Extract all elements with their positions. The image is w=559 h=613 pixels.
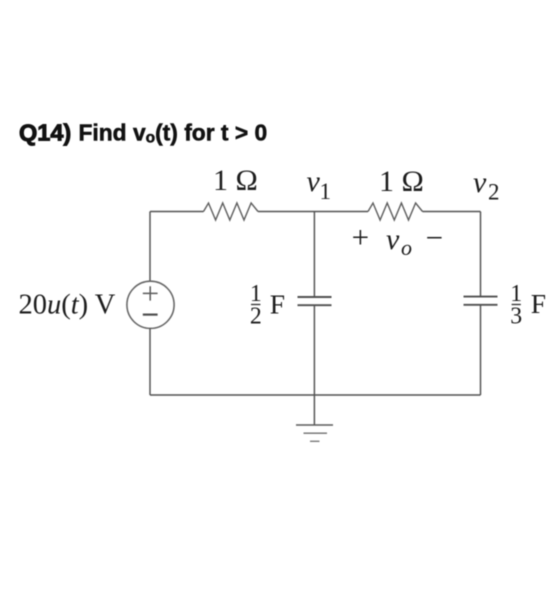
- wire between resistors: [258, 211, 368, 213]
- ground bar 2: [304, 432, 328, 434]
- capacitor C1 1/2 F plates: [298, 297, 332, 305]
- svg-text:−: −: [426, 220, 443, 255]
- svg-text:+: +: [352, 220, 369, 255]
- svg-text:Q14): Q14): [19, 120, 71, 146]
- svg-text:3: 3: [510, 304, 522, 330]
- svg-text:F: F: [270, 289, 285, 320]
- wire middle vertical top: [313, 212, 315, 298]
- svg-text:o: o: [401, 235, 412, 260]
- wire right vertical bottom: [480, 305, 482, 395]
- voltage source plus: [143, 286, 158, 300]
- wire top-left segment: [150, 211, 204, 213]
- ground bar 1: [296, 424, 333, 426]
- wire left vertical top: [149, 212, 151, 282]
- svg-text:v: v: [307, 165, 321, 198]
- ground bar 3: [310, 440, 320, 442]
- svg-text:Find vo(t) for t > 0: Find vo(t) for t > 0: [79, 120, 268, 147]
- resistor R1 1-ohm: [204, 203, 259, 220]
- svg-text:F: F: [531, 288, 546, 319]
- voltage source minus: [143, 314, 158, 316]
- capacitor C2 label 1/3 F: [510, 281, 546, 330]
- svg-text:20u(t) V: 20u(t) V: [19, 290, 116, 321]
- ground stem: [313, 395, 315, 425]
- svg-text:1 Ω: 1 Ω: [213, 164, 258, 197]
- capacitor C1 label 1/2 F: [250, 281, 285, 330]
- voltage source VS circle: [127, 281, 174, 328]
- svg-text:2: 2: [488, 179, 500, 204]
- capacitor C2 1/3 F plates: [464, 297, 498, 305]
- svg-text:1 Ω: 1 Ω: [379, 165, 424, 198]
- resistor R2 1-ohm: [368, 203, 423, 220]
- wire left vertical bottom: [149, 328, 151, 395]
- wire middle vertical bottom: [313, 305, 315, 395]
- wire bottom rail: [150, 394, 481, 396]
- svg-text:v: v: [386, 223, 400, 256]
- svg-text:2: 2: [250, 304, 262, 330]
- wire right vertical top: [480, 212, 482, 297]
- svg-text:v: v: [473, 166, 487, 199]
- svg-text:1: 1: [320, 179, 332, 204]
- wire top-right segment: [423, 211, 481, 213]
